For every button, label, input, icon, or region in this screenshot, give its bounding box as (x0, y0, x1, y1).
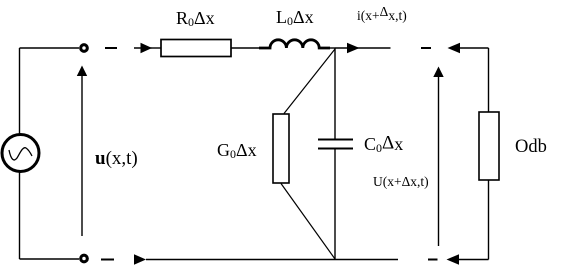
wire: load bottom lead down to bottom rail (488, 180, 490, 260)
wire: bottom-left rail segment (20, 258, 80, 260)
resistor R0dx (161, 40, 231, 57)
wire: right vertical down to load (488, 48, 490, 112)
svg-text:i(x+Δx,t): i(x+Δx,t) (357, 4, 407, 23)
wire: left vertical from top rail to bottom rail through source (19, 48, 21, 259)
load Odb (terminating resistor) (479, 112, 499, 180)
svg-text:Odb: Odb (515, 137, 547, 157)
wire: top rail current arrow into R (points right) (134, 43, 161, 53)
inductor L0dx (259, 40, 330, 48)
svg-text:R0Δx: R0Δx (176, 8, 215, 29)
capacitor C0dx (318, 140, 353, 149)
wire: dash on bottom rail right section (428, 259, 438, 261)
node: bottom-left terminal circle (81, 255, 88, 262)
wire: dash on bottom rail left section (101, 259, 114, 261)
wire: top-right rail with arrow pointing left (448, 43, 489, 53)
arrow u(x,t): voltage arrow pointing up (77, 66, 87, 237)
wire: bottom rail main segment (146, 259, 398, 261)
svg-text:U(x+Δx,t): U(x+Δx,t) (373, 174, 429, 189)
svg-text:C0Δx: C0Δx (364, 133, 403, 156)
wire: bottom-right rail with arrow pointing left (447, 254, 489, 264)
arrow U(x+dx,t): voltage arrow pointing up (433, 67, 443, 247)
wire: top-left horizontal rail segment (20, 47, 80, 49)
wire: top rail with arrow right of junction (335, 43, 391, 53)
wire: dash on top rail right section (421, 47, 431, 49)
wire: between resistor and inductor (231, 47, 262, 49)
wire: capacitor bottom to bottom rail (334, 149, 336, 260)
wire: diagonal from G bottom to bottom junction (281, 184, 335, 260)
wire: dash on top rail after terminal (105, 47, 117, 49)
svg-text:u(x,t): u(x,t) (95, 148, 138, 169)
AC source U1 (sine generator) (2, 135, 39, 172)
conductance G0dx (vertical resistor) (273, 114, 289, 183)
node: top-left terminal circle (81, 45, 88, 52)
wire: inductor to node junction (326, 47, 335, 49)
svg-text:L0Δx: L0Δx (276, 7, 314, 28)
wire: junction down to capacitor top (334, 48, 336, 139)
wire: diagonal from top junction to G top (284, 49, 335, 114)
wire: bottom rail arrow pointing right (134, 254, 146, 264)
svg-text:G0Δx: G0Δx (217, 140, 257, 161)
